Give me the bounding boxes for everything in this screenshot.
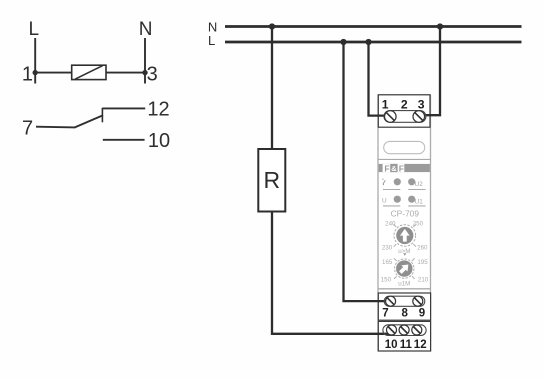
- svg-text:F: F: [399, 163, 404, 173]
- svg-text:R: R: [263, 167, 280, 193]
- svg-text:165: 165: [382, 259, 393, 266]
- svg-text:250: 250: [413, 220, 424, 227]
- svg-text:195: 195: [417, 259, 428, 266]
- svg-text:230: 230: [382, 244, 393, 251]
- svg-text:7: 7: [22, 118, 33, 140]
- svg-text:1: 1: [382, 98, 389, 112]
- svg-text:11: 11: [400, 339, 413, 351]
- svg-text:CP-709: CP-709: [391, 209, 420, 219]
- svg-text:&: &: [391, 164, 397, 173]
- svg-text:8: 8: [401, 308, 408, 320]
- svg-text:U: U: [382, 197, 387, 204]
- svg-text:10: 10: [148, 130, 170, 152]
- svg-text:2: 2: [401, 98, 408, 112]
- svg-text:U1: U1: [415, 199, 424, 206]
- svg-text:N: N: [208, 19, 217, 34]
- svg-text:1: 1: [22, 64, 33, 86]
- svg-text:240: 240: [385, 220, 396, 227]
- svg-text:12: 12: [414, 339, 427, 351]
- svg-text:L: L: [29, 19, 40, 40]
- svg-text:F: F: [384, 163, 389, 173]
- svg-text:10: 10: [385, 339, 398, 351]
- svg-text:12: 12: [147, 99, 169, 121]
- svg-text:3: 3: [418, 98, 425, 112]
- svg-text:N: N: [139, 19, 153, 40]
- svg-text:3: 3: [147, 64, 158, 86]
- svg-text:L: L: [208, 33, 215, 48]
- svg-text:260: 260: [417, 244, 428, 251]
- svg-text:U2: U2: [415, 181, 424, 188]
- svg-text:u1M: u1M: [398, 281, 410, 288]
- svg-text:7: 7: [382, 308, 388, 320]
- svg-text:9: 9: [419, 308, 425, 320]
- svg-text:210: 210: [418, 276, 429, 283]
- svg-text:150: 150: [381, 276, 392, 283]
